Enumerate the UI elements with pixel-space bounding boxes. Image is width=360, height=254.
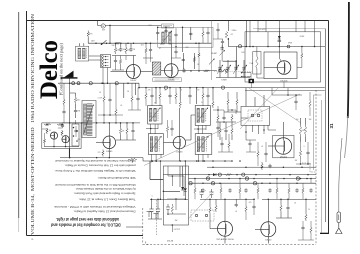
T3b core <box>205 137 207 152</box>
svg-text:.02: .02 <box>261 146 263 148</box>
wire T stubs mid <box>151 124 206 134</box>
wire Q8 emitter <box>267 237 269 244</box>
transistor Q10 <box>62 136 69 143</box>
output enclosure <box>245 32 321 82</box>
dial cord d2 <box>249 88 301 123</box>
jack box <box>241 106 270 125</box>
resistor Rg5 <box>63 98 65 106</box>
svg-text:parallel with the 12 Volt Acce: parallel with the 12 Volt Accessory Circ… <box>64 164 135 168</box>
svg-text:100: 100 <box>77 100 80 102</box>
resistor Rf4 <box>202 30 204 38</box>
junction <box>160 199 162 201</box>
resistor Rm3 <box>102 150 104 157</box>
wire box h <box>163 166 180 191</box>
wire v166 <box>165 27 167 43</box>
resistor Rrc1 <box>299 149 301 158</box>
wire g2 <box>146 98 208 106</box>
resistor R18 <box>299 125 301 137</box>
capacitor C5 <box>164 29 167 33</box>
chassis dashed right <box>315 90 317 245</box>
svg-text:With Dash Radio Push Button.: With Dash Radio Push Button. <box>97 176 135 180</box>
connector block CN1 <box>101 55 111 68</box>
wire fuse lead <box>339 138 342 212</box>
B+ rail left <box>58 82 139 84</box>
resistor R29 <box>57 123 64 125</box>
text-block bottom rule <box>27 235 144 237</box>
aux bottom rail <box>44 146 79 148</box>
nested box line b <box>321 100 323 233</box>
capacitor C2 <box>129 47 132 51</box>
wire conn drops <box>103 68 108 84</box>
junction dot rail <box>109 42 111 44</box>
resistor R24 <box>209 206 211 214</box>
tuning gang <box>219 60 221 78</box>
nested box top a <box>314 94 322 96</box>
schematic frame right outer <box>320 21 329 234</box>
svg-text:(Continued on the next page): (Continued on the next page) <box>60 42 64 95</box>
wire m2 <box>98 114 123 116</box>
schematic frame right inner <box>325 29 327 223</box>
switch box pins <box>73 127 75 129</box>
capacitor C16 <box>222 116 225 120</box>
resistor R1 <box>87 31 89 38</box>
junction <box>69 157 71 159</box>
terminal J2 <box>226 70 229 73</box>
svg-text:100: 100 <box>296 119 299 121</box>
antenna coil box <box>76 46 89 61</box>
wire T2b to Q5 <box>164 142 174 144</box>
capacitor C7 <box>182 58 185 62</box>
wire r8 links <box>297 47 302 68</box>
terminal T marks <box>147 212 159 220</box>
svg-text:DS: DS <box>49 130 51 132</box>
wire t mid rail <box>146 128 206 131</box>
ballast resistor R7 <box>256 53 258 72</box>
wire h3 <box>295 95 297 110</box>
capacitor Ck1 <box>216 126 219 130</box>
wire T1 to Q2 <box>161 70 165 72</box>
AM loop antenna box <box>82 101 96 138</box>
wire Q7 feed <box>224 199 226 221</box>
svg-text:IF: IF <box>201 102 202 104</box>
resistor Rh1 <box>257 150 259 158</box>
diode D4 <box>213 173 216 176</box>
wire f7 <box>202 27 204 43</box>
svg-text:DS-36: DS-36 <box>167 240 174 242</box>
junction <box>190 70 192 72</box>
lamp I4 <box>189 182 192 185</box>
chassis ground <box>336 223 342 234</box>
capacitor Cb4 <box>295 188 298 192</box>
section boundary <box>211 21 213 80</box>
lamp I1 <box>206 177 209 180</box>
wire f10 <box>222 39 224 50</box>
lamp ticks <box>189 177 299 184</box>
capacitor Cg3 <box>188 94 191 98</box>
svg-text:.001: .001 <box>301 130 305 132</box>
osc coil L3 <box>162 32 164 44</box>
svg-text:Total Battery Drain 1.5 Amps a: Total Battery Drain 1.5 Amps at 12 Volts… <box>78 198 135 202</box>
lamp I6 <box>253 182 256 185</box>
junction <box>219 182 221 184</box>
wire r12 links <box>116 123 136 140</box>
wire rail drop link <box>252 82 285 88</box>
lamp rail B <box>189 182 317 184</box>
resistor Rn1 <box>228 141 230 149</box>
wire f9 <box>213 23 223 39</box>
dial cord d3 <box>240 88 278 129</box>
wire mid rail 123 <box>62 122 140 124</box>
capacitor Cf4 <box>114 59 117 63</box>
svg-text:270: 270 <box>98 152 101 154</box>
resistor Rb1 <box>220 187 222 195</box>
junction <box>163 191 165 193</box>
frame inner top right <box>253 28 325 30</box>
junction pb <box>172 175 174 177</box>
resistor R19 <box>304 125 306 137</box>
output transistor box <box>264 52 297 79</box>
wire Q4 emitter <box>108 149 110 158</box>
wire i1 <box>298 221 314 240</box>
Q6 box <box>273 135 294 157</box>
choke L8 <box>164 86 167 89</box>
svg-text:.001: .001 <box>140 45 143 47</box>
svg-text:.5: .5 <box>151 196 152 198</box>
capacitor C12 <box>170 127 173 131</box>
svg-text:.5: .5 <box>303 146 304 148</box>
svg-text:10: 10 <box>308 209 310 211</box>
capacitor Ci1 <box>301 226 304 230</box>
trimmer C8 <box>220 48 223 49</box>
IF transformer T3b box <box>195 134 212 155</box>
choke L7 <box>115 82 118 85</box>
transistor Q4 DS-65 <box>103 136 116 149</box>
transistor Q2 DS-66 <box>165 64 179 78</box>
junction y174 <box>208 174 210 176</box>
junction k <box>217 109 219 111</box>
T2b primary <box>150 137 153 152</box>
resistor Ri1 <box>310 226 312 234</box>
svg-text:220: 220 <box>197 90 200 92</box>
wire Q5 emitter <box>178 149 180 161</box>
capacitor Cb1 <box>228 188 231 192</box>
wire spkr stubs <box>247 73 251 79</box>
wire r11 links <box>70 93 76 118</box>
dashed v line speaker <box>155 200 157 235</box>
resistor Ri2 <box>245 205 247 213</box>
wire Q1 base <box>133 56 135 65</box>
wire v124 drop <box>123 83 125 98</box>
capacitor Cf5 <box>174 33 177 37</box>
resistor Rf3 <box>119 58 121 65</box>
resistor Rb3 <box>257 187 259 195</box>
audio rail right <box>143 160 232 162</box>
svg-text:additional data see next page: additional data see next page at right. <box>56 217 119 222</box>
connector blob <box>249 79 255 83</box>
jack inner dashed <box>248 110 262 121</box>
osc core dashes <box>166 32 168 44</box>
wire v246 <box>245 21 247 47</box>
resistor R12 <box>119 127 121 135</box>
wire coil to connector <box>89 56 101 60</box>
choke L9 <box>221 86 224 89</box>
page left edge <box>18 12 20 218</box>
wire i3 <box>245 199 247 220</box>
resistor Rk2 <box>198 52 200 58</box>
svg-text:Window Lift or Tailgate Motors: Window Lift or Tailgate Motors will blow… <box>54 169 135 173</box>
wire v160 drop <box>159 161 161 199</box>
svg-text:220: 220 <box>186 47 189 49</box>
wire Q7 emitter <box>224 236 226 243</box>
wire v190 <box>190 27 192 40</box>
T3a arrow <box>197 108 208 123</box>
wire k4 <box>246 140 256 152</box>
connector pins <box>101 56 103 58</box>
lamp I8 <box>242 173 245 176</box>
wire stubs rails <box>195 183 303 199</box>
AM loop coil <box>84 104 87 135</box>
wire below jack <box>246 125 276 140</box>
resistor R32 <box>225 174 233 176</box>
trimmer arrow <box>209 59 215 65</box>
resistor R10 <box>212 100 214 108</box>
wire j2 <box>42 128 66 147</box>
connector pin arrows <box>105 56 109 58</box>
dial cord d4 <box>188 192 213 219</box>
capacitor C9 <box>278 40 282 41</box>
svg-text:Interference Channel is used a: Interference Channel is used and the Spe… <box>55 159 136 163</box>
transistor Q6 DS-501 <box>275 138 292 155</box>
resistor R26 <box>280 204 282 212</box>
switch SW1 <box>102 40 107 44</box>
resistor R6 slanted <box>225 32 227 38</box>
T2a secondary <box>154 108 157 121</box>
header rule <box>26 11 28 236</box>
capacitor Cm1 <box>108 98 111 102</box>
resistor Rj1 <box>43 138 45 144</box>
transistor Q8 DS-50 <box>261 222 276 237</box>
resistor R16 <box>231 127 233 135</box>
svg-text:DS-66: DS-66 <box>168 79 175 81</box>
IF transformer T2a box <box>148 106 162 125</box>
wire battery column <box>69 83 71 157</box>
svg-text:.05: .05 <box>164 90 166 92</box>
svg-text:47: 47 <box>159 48 161 50</box>
transistor Q1 DS-67 <box>127 65 141 79</box>
capacitor Cn1 <box>220 142 223 146</box>
wire n1 <box>218 134 233 152</box>
capacitor Cb2 <box>244 188 247 192</box>
capacitor Crc1 <box>306 151 309 155</box>
svg-text:Speaker is Radio operated with: Speaker is Radio operated with Push Butt… <box>73 191 135 195</box>
speaker arrow 1 <box>241 72 247 74</box>
capacitor Cj2 <box>61 124 64 128</box>
wire drops from B+ rail <box>156 88 213 104</box>
IF transformer T2b box <box>148 134 163 155</box>
svg-text:LOOP: LOOP <box>98 98 102 100</box>
junction m <box>103 114 105 116</box>
svg-text:MOT: MOT <box>102 30 105 32</box>
svg-text:TUNER: TUNER <box>221 80 228 82</box>
resistor Rg1 <box>145 92 147 100</box>
wire battery feed vertical <box>69 78 71 83</box>
wire motor drop <box>98 21 162 44</box>
transistor Q5 DS-66 <box>173 136 185 148</box>
svg-text:by Mica Washers on the Radio C: by Mica Washers on the Radio Chassis Rea… <box>75 187 135 191</box>
terminal ring rail <box>238 45 241 48</box>
wire k1 <box>217 106 219 137</box>
choke L6 <box>89 82 92 85</box>
svg-text:31: 31 <box>329 123 334 129</box>
wire vol drop <box>150 161 163 180</box>
resistor Rb2 <box>239 187 241 195</box>
capacitor C17 <box>268 164 271 168</box>
capacitor Ck2 <box>248 142 251 146</box>
wire coil top <box>79 43 84 46</box>
wire pb int <box>167 166 186 214</box>
resistor Rb5 <box>288 187 290 195</box>
wire frame top drops2 <box>250 21 315 32</box>
wire fm mid rail <box>112 55 136 57</box>
wire lamprail stubs <box>195 179 311 184</box>
capacitor Cg5 <box>62 110 65 114</box>
capacitor Ch2 <box>294 100 297 104</box>
capacitor C13 <box>224 129 227 133</box>
capacitor Cb5 <box>309 188 312 192</box>
wire i2 <box>253 199 255 215</box>
wire extra frame drop <box>258 21 296 32</box>
jack pins <box>251 114 254 117</box>
wire Q3 base <box>264 67 277 69</box>
transistor Q3 DS-501 <box>277 61 291 75</box>
wire rc1 <box>296 142 311 164</box>
wire Q1 to T1 <box>141 71 153 73</box>
label box SW <box>162 24 174 28</box>
T2a core <box>157 108 159 121</box>
resistor R14 <box>166 125 168 133</box>
switch box <box>72 124 79 146</box>
label box 12V <box>153 78 182 82</box>
audio rail left <box>60 157 143 159</box>
junction <box>69 82 71 84</box>
T2b core <box>158 137 160 152</box>
capacitor C6 <box>189 32 192 36</box>
capacitor C10 <box>74 109 77 113</box>
svg-text:.05: .05 <box>120 105 122 107</box>
wire aux drop <box>68 149 70 158</box>
wire h57 <box>223 47 237 71</box>
FM tuner enclosure <box>158 27 213 47</box>
capacitor Cf8 <box>221 40 224 44</box>
resistor R21 <box>236 98 238 106</box>
svg-text:DS-65: DS-65 <box>106 151 113 153</box>
wire f6 <box>175 28 177 47</box>
resistor Rg2 <box>159 92 161 100</box>
resistor R3 <box>125 46 127 54</box>
junction <box>279 46 281 48</box>
phono pins <box>195 214 197 216</box>
resistor R8 <box>301 52 303 60</box>
resistor R17 <box>171 204 173 214</box>
wire v172 drop <box>171 225 173 232</box>
svg-text:470: 470 <box>249 202 252 204</box>
T3b primary <box>197 137 200 152</box>
svg-text:.02: .02 <box>230 34 233 36</box>
junction tb <box>151 160 153 162</box>
resistor Rb6 <box>302 187 304 195</box>
page right edge lower fade <box>345 116 348 158</box>
wire am rail <box>239 46 325 48</box>
svg-text:1ST AUDIO DS-50: 1ST AUDIO DS-50 <box>216 238 234 241</box>
aux amp box <box>42 123 81 149</box>
terminal J1 <box>219 69 222 72</box>
resistor R4 <box>203 70 210 72</box>
lamp rail A <box>189 178 317 180</box>
wire j1 <box>45 126 77 147</box>
junction ob <box>249 46 251 48</box>
junction k3 <box>245 131 247 133</box>
page right edge <box>348 2 349 118</box>
lamp I5 <box>211 182 214 185</box>
wire misc bt <box>210 199 236 228</box>
spark plate capacitor <box>64 71 74 78</box>
wire g4 <box>128 83 141 110</box>
capacitor Cf6 <box>206 31 209 35</box>
wire v135 drop <box>135 83 137 95</box>
capacitor C19 <box>286 206 289 210</box>
capacitor Ch1 <box>264 152 267 156</box>
resistor R13 <box>126 127 128 135</box>
capacitor Cg1 <box>150 94 153 98</box>
T3a secondary <box>202 108 205 122</box>
terminal ring <box>287 45 290 48</box>
B+ rail right <box>139 87 232 89</box>
switch blade <box>222 69 226 72</box>
junction extra2 <box>224 160 226 162</box>
resistor Rm2 <box>115 108 117 116</box>
IF transformer T3a box <box>195 106 210 126</box>
wire v228 lower <box>228 38 239 47</box>
chassis dashed bottom <box>143 244 316 246</box>
wire frame bottom link <box>320 232 329 234</box>
svg-text:FM ANT: FM ANT <box>211 52 217 55</box>
junction f <box>115 42 117 44</box>
capacitor Cg2 <box>168 94 171 98</box>
capacitor Ck3 <box>174 50 177 54</box>
transistor Q9 <box>50 132 57 139</box>
wire rail y174 <box>163 174 316 176</box>
capacitor Cf3 <box>149 48 152 52</box>
wire g3 <box>63 83 65 123</box>
wire k2 <box>213 110 236 116</box>
resistor Rf2 <box>145 47 147 54</box>
lamp I2 <box>245 177 248 180</box>
B+ rail step <box>138 83 140 87</box>
volume pot <box>128 158 137 160</box>
dashed steps <box>302 163 317 172</box>
wire v194 <box>193 53 195 69</box>
resistor Rg4 <box>202 92 204 100</box>
wire g1 <box>146 88 208 94</box>
nested box line a <box>313 95 315 170</box>
wire Q4 feed <box>108 123 110 136</box>
AM loop arrow <box>84 105 94 135</box>
antenna coil L1 <box>78 48 81 59</box>
capacitor C1 <box>119 47 122 51</box>
wire Q5 collector up <box>186 115 196 140</box>
wire Q6 base <box>268 145 275 147</box>
wire T stubs bottom <box>152 154 209 161</box>
